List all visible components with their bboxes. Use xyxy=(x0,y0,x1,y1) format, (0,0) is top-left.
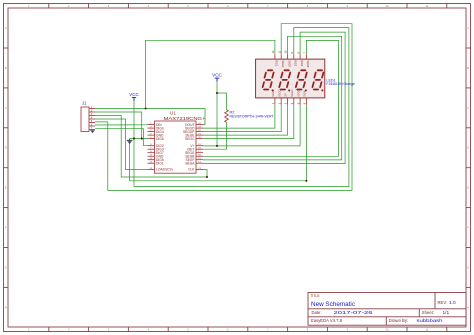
svg-text:A: A xyxy=(467,26,469,30)
svg-text:2017-07-26: 2017-07-26 xyxy=(334,310,374,316)
svg-text:8: 8 xyxy=(307,327,309,331)
svg-text:9: 9 xyxy=(290,52,294,54)
svg-text:D: D xyxy=(467,146,469,150)
svg-text:1/1: 1/1 xyxy=(443,310,450,316)
svg-text:DIG1: DIG1 xyxy=(156,161,164,165)
svg-text:MAX7219CNG+: MAX7219CNG+ xyxy=(164,116,206,121)
svg-text:F: F xyxy=(467,226,469,230)
svg-text:CLK: CLK xyxy=(188,168,195,172)
svg-text:12: 12 xyxy=(271,50,275,53)
svg-text:B: B xyxy=(467,66,469,70)
svg-text:3: 3 xyxy=(108,327,110,331)
svg-text:4: 4 xyxy=(148,327,150,331)
svg-text:SEGD: SEGD xyxy=(278,89,281,96)
svg-text:2: 2 xyxy=(68,4,70,8)
svg-text:2: 2 xyxy=(277,102,281,104)
svg-text:6: 6 xyxy=(227,4,229,8)
svg-text:RESISTORPTH-1/4W-VERT: RESISTORPTH-1/4W-VERT xyxy=(230,114,274,119)
svg-text:EasyEDA V4.7.8: EasyEDA V4.7.8 xyxy=(311,318,343,323)
svg-text:6: 6 xyxy=(227,327,229,331)
svg-text:DP: DP xyxy=(285,93,288,97)
svg-text:9: 9 xyxy=(347,327,349,331)
svg-text:SEGB: SEGB xyxy=(306,60,309,67)
svg-text:2: 2 xyxy=(68,327,70,331)
svg-text:5: 5 xyxy=(187,4,189,8)
svg-text:E: E xyxy=(5,186,7,190)
svg-text:11: 11 xyxy=(426,327,429,331)
svg-text:8: 8 xyxy=(307,4,309,8)
svg-text:7: 7 xyxy=(303,52,307,54)
svg-text:5: 5 xyxy=(187,327,189,331)
svg-text:9: 9 xyxy=(347,4,349,8)
svg-text:REV:: REV: xyxy=(438,300,448,305)
svg-text:5: 5 xyxy=(296,102,300,104)
svg-text:Sheet:: Sheet: xyxy=(422,310,434,315)
svg-text:E: E xyxy=(467,186,469,190)
svg-text:New Schematic: New Schematic xyxy=(311,301,355,308)
svg-text:FJ5461BH Orange: FJ5461BH Orange xyxy=(326,82,355,86)
svg-text:DIG6: DIG6 xyxy=(156,137,164,141)
svg-text:4: 4 xyxy=(148,4,150,8)
svg-text:3: 3 xyxy=(108,4,110,8)
svg-text:B: B xyxy=(5,66,7,70)
svg-text:Drawn By:: Drawn By: xyxy=(389,318,408,323)
svg-text:G: G xyxy=(467,265,469,269)
svg-text:10: 10 xyxy=(386,327,389,331)
svg-text:7: 7 xyxy=(267,327,269,331)
svg-text:VCC: VCC xyxy=(212,72,222,77)
svg-text:U1: U1 xyxy=(170,111,176,116)
svg-text:7: 7 xyxy=(267,4,269,8)
svg-text:1: 1 xyxy=(28,4,30,8)
svg-text:Date:: Date: xyxy=(312,310,322,315)
svg-text:J1: J1 xyxy=(82,101,87,106)
svg-text:11: 11 xyxy=(426,4,429,8)
svg-text:SEGF: SEGF xyxy=(287,60,290,67)
svg-text:C: C xyxy=(5,106,7,110)
svg-text:VCC: VCC xyxy=(129,92,139,97)
svg-text:SEGC: SEGC xyxy=(291,89,294,96)
svg-text:DIG1: DIG1 xyxy=(275,60,278,66)
svg-text:G: G xyxy=(5,265,7,269)
svg-text:A: A xyxy=(5,26,7,30)
svg-text:subbbash: subbbash xyxy=(417,318,443,324)
svg-text:8: 8 xyxy=(296,52,300,54)
svg-text:LOAD/(CS): LOAD/(CS) xyxy=(156,168,173,172)
svg-text:H: H xyxy=(467,305,469,309)
svg-text:F: F xyxy=(5,226,7,230)
svg-text:10: 10 xyxy=(386,4,389,8)
svg-text:H: H xyxy=(5,305,7,309)
svg-text:11: 11 xyxy=(277,50,281,53)
svg-text:1.0: 1.0 xyxy=(449,300,456,306)
svg-text:SEGG: SEGG xyxy=(297,89,300,96)
svg-text:D: D xyxy=(5,146,7,150)
svg-text:1: 1 xyxy=(28,327,30,331)
svg-text:DIG2: DIG2 xyxy=(294,60,297,66)
svg-text:SEGA: SEGA xyxy=(281,60,284,67)
svg-text:10: 10 xyxy=(284,50,288,53)
svg-text:DIG3: DIG3 xyxy=(300,60,303,66)
svg-text:TITLE:: TITLE: xyxy=(310,294,320,298)
svg-text:SEGA: SEGA xyxy=(185,161,195,165)
svg-text:SEGC: SEGC xyxy=(185,137,195,141)
svg-text:C: C xyxy=(467,106,469,110)
